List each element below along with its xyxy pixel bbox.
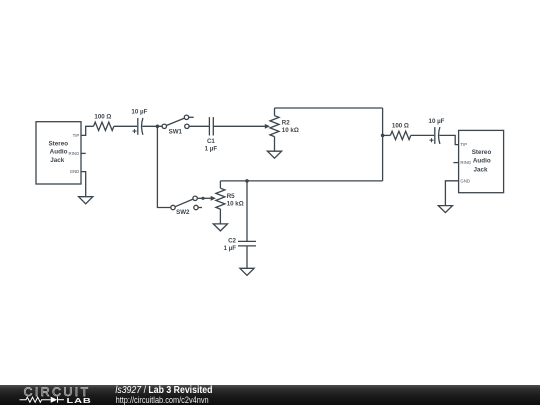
CircuitLab logo wordmark LAB	[67, 397, 92, 405]
wire node D to C2	[246, 181, 248, 242]
wire C4 to J2 TIP	[439, 135, 458, 144]
svg-text:LAB: LAB	[67, 397, 92, 405]
svg-text:TIP: TIP	[460, 142, 467, 147]
svg-text:Jack: Jack	[473, 166, 488, 173]
svg-text:RING: RING	[460, 160, 471, 165]
svg-text:1 µF: 1 µF	[205, 146, 218, 153]
wire R1 to C3	[114, 125, 137, 127]
potentiometer R5	[211, 181, 225, 224]
potentiometer R2	[265, 108, 279, 151]
wire SW2 to R5 wiper	[197, 197, 211, 199]
node D junction dot	[245, 179, 249, 183]
wire J2 RING stub	[453, 162, 458, 164]
capacitor C2	[238, 241, 256, 246]
node B junction dot	[381, 134, 385, 138]
wire C2 to ground	[246, 246, 248, 268]
svg-text:C1: C1	[207, 138, 215, 145]
wire right column vertical	[382, 108, 384, 181]
wire R4 to C4	[411, 134, 434, 136]
ground (right jack)	[438, 206, 452, 213]
CircuitLab logo circuit line with resistor and diode	[20, 397, 65, 403]
svg-text:10 µF: 10 µF	[429, 118, 445, 125]
ground (C2)	[240, 268, 254, 275]
ground (R2)	[267, 151, 281, 158]
svg-text:RING: RING	[69, 151, 80, 156]
capacitor C3 (10 µF polarized)	[133, 118, 143, 135]
svg-text:Stereo: Stereo	[472, 149, 492, 156]
svg-text:100 Ω: 100 Ω	[94, 114, 111, 121]
svg-text:Audio: Audio	[50, 149, 68, 156]
wire node A down to SW2	[157, 126, 170, 207]
ground (left jack)	[79, 197, 93, 204]
wire J1 RING stub	[81, 152, 86, 154]
switch SW2	[171, 196, 202, 210]
stereo audio jack J2	[459, 130, 504, 192]
svg-text:100 Ω: 100 Ω	[392, 123, 409, 130]
wire J1 GND to ground	[81, 172, 86, 197]
svg-text:1 µF: 1 µF	[223, 245, 236, 252]
stereo audio jack J1	[36, 122, 81, 184]
svg-text:GND: GND	[70, 169, 80, 174]
switch SW1	[162, 115, 194, 128]
wire bottom rail	[220, 180, 382, 182]
wire C3 to node A	[142, 125, 162, 127]
wire J1 TIP to R1	[81, 126, 94, 135]
svg-text:SW2: SW2	[176, 209, 190, 216]
wire SW1 to C1	[189, 125, 209, 127]
svg-text:Jack: Jack	[50, 157, 65, 164]
svg-text:Stereo: Stereo	[48, 140, 68, 147]
svg-text:10 kΩ: 10 kΩ	[227, 200, 244, 207]
node C junction dot	[201, 197, 204, 200]
capacitor C1	[209, 117, 213, 135]
svg-text:http://circuitlab.com/c2v4nvn: http://circuitlab.com/c2v4nvn	[116, 394, 209, 405]
wire top rail R2 to right column	[275, 107, 383, 109]
svg-text:TIP: TIP	[73, 133, 80, 138]
svg-text:GND: GND	[460, 178, 470, 183]
wire J2 GND to ground	[445, 181, 458, 206]
resistor R4	[390, 131, 410, 139]
svg-text:10 µF: 10 µF	[131, 109, 147, 116]
svg-text:10 kΩ: 10 kΩ	[282, 127, 299, 134]
node A junction dot	[156, 125, 160, 129]
footer url	[116, 394, 209, 405]
ground (R5)	[213, 224, 227, 231]
svg-text:Audio: Audio	[473, 158, 491, 165]
resistor R1	[94, 122, 114, 130]
wire C1 to R2 wiper	[213, 125, 265, 127]
svg-text:C2: C2	[228, 238, 236, 245]
footer title: ls3927 / Lab 3 Revisited	[115, 384, 212, 396]
svg-text:R2: R2	[282, 120, 290, 127]
svg-text:SW1: SW1	[169, 129, 183, 136]
capacitor C4 (10 µF polarized)	[430, 127, 440, 144]
wire node B to R4	[383, 134, 391, 136]
svg-text:R5: R5	[227, 193, 235, 200]
